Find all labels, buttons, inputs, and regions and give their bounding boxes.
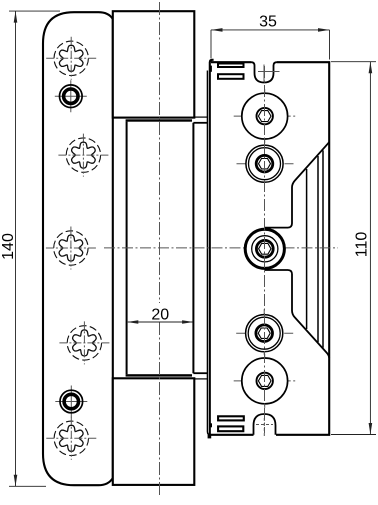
hinge pin centerline: [159, 2, 161, 497]
bushing R1: [55, 80, 87, 112]
hinge bottom knuckle: [113, 378, 195, 485]
dimension 140: [0, 11, 60, 486]
frame part outline: [208, 60, 330, 439]
svg-text:20: 20: [151, 306, 169, 323]
central pivot boss B3: [194, 229, 339, 268]
neck between knuckles and frame part: [193, 71, 210, 435]
boss with hex hole B5: [234, 354, 296, 408]
bottom arch notch in frame part: [254, 414, 276, 436]
torx screw T5: [46, 417, 96, 460]
torx screw T2: [58, 134, 108, 177]
torx screw T3: [46, 227, 96, 270]
vertical centerline of bosses: [264, 66, 266, 433]
hinge middle knuckle: [126, 119, 194, 376]
wedge (security stud area) on frame part: [265, 142, 330, 358]
dimension 20: [127, 303, 194, 324]
top U-notch in frame part: [251, 62, 280, 82]
svg-text:110: 110: [353, 232, 370, 258]
hinge top knuckle: [113, 11, 195, 117]
dimension 35: [211, 13, 330, 59]
boss with hex hole B1: [234, 89, 296, 143]
screw boss B2: [237, 140, 295, 188]
svg-text:140: 140: [0, 233, 17, 260]
svg-text:35: 35: [259, 13, 277, 30]
torx screw T4: [59, 321, 109, 364]
bottom retaining tabs: [209, 416, 244, 431]
dimension 110: [331, 62, 376, 435]
bushing R2: [55, 386, 87, 418]
horizontal centerline through hinge axis row: [104, 247, 194, 249]
top retaining tabs: [209, 64, 243, 79]
screw boss B4: [236, 309, 294, 357]
door-leaf plate: [43, 12, 113, 485]
torx screw T1: [46, 37, 96, 80]
